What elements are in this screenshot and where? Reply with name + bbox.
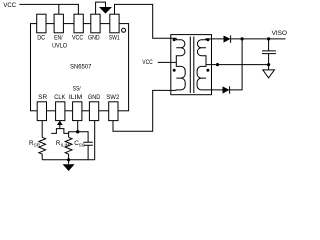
svg-text:VCC: VCC bbox=[3, 2, 16, 9]
transformer primary windings bbox=[176, 38, 185, 90]
wire VCC rail bbox=[19, 4, 78, 14]
ground iso (open triangle) bbox=[263, 65, 275, 78]
wire D2 cathode riser bbox=[230, 39, 243, 90]
pin labels bottom bbox=[38, 85, 120, 101]
pin SW1 bbox=[110, 14, 119, 33]
transformer secondary windings bbox=[197, 38, 206, 90]
capacitor CSS bbox=[83, 142, 92, 160]
svg-text:ILIM: ILIM bbox=[61, 143, 70, 148]
svg-text:VISO: VISO bbox=[272, 30, 287, 37]
pin SS/ILIM bbox=[73, 102, 82, 121]
IC name SN6507 bbox=[70, 63, 92, 70]
pin VCC bbox=[74, 14, 83, 33]
wire GND pin down bbox=[94, 121, 96, 160]
wire GND pin to ground bbox=[96, 2, 106, 14]
svg-text:SS: SS bbox=[79, 143, 85, 148]
wire SW2 to transformer primary bottom bbox=[113, 90, 176, 131]
pin EN/UVLO bbox=[54, 14, 63, 33]
clock source symbol bbox=[59, 121, 61, 125]
node VISO label bbox=[272, 30, 287, 37]
svg-text:SW2: SW2 bbox=[106, 94, 119, 101]
wire SW1 to transformer primary top bbox=[115, 4, 177, 38]
node VCC label centre tap bbox=[142, 59, 153, 66]
transformer T1 box bbox=[171, 35, 212, 95]
svg-text:EN/: EN/ bbox=[54, 35, 63, 42]
diode D1 top bbox=[224, 36, 231, 43]
svg-text:DC: DC bbox=[37, 35, 45, 42]
transformer core bbox=[190, 37, 194, 94]
pin labels top bbox=[37, 35, 120, 50]
transformer phase dots bbox=[173, 38, 210, 71]
svg-text:SN6507: SN6507 bbox=[70, 63, 92, 70]
svg-text:CLK: CLK bbox=[54, 94, 66, 101]
pin SR bbox=[37, 102, 46, 121]
svg-text:ILIM: ILIM bbox=[69, 94, 82, 101]
pin SW2 bbox=[109, 102, 118, 121]
node junction dot ground bbox=[67, 158, 70, 161]
wire VCC to primary centre tap bbox=[158, 61, 177, 63]
pin CLK bbox=[56, 102, 65, 121]
node junction dot centre tap bbox=[216, 63, 219, 66]
node junction dot cap bottom bbox=[267, 63, 270, 66]
wire to RILIM bbox=[69, 132, 78, 138]
node junction dot cap branch bbox=[267, 37, 270, 40]
wire VISO rail bbox=[231, 38, 286, 40]
wire SR to resistor bbox=[41, 121, 43, 138]
wire bottom rail bbox=[42, 159, 94, 161]
wire secondary centre tap bbox=[206, 64, 269, 66]
pin DC bbox=[37, 14, 46, 33]
wire secondary top to diode bbox=[206, 38, 223, 40]
svg-text:SW1: SW1 bbox=[109, 35, 120, 42]
svg-text:VCC: VCC bbox=[142, 59, 153, 66]
node corner circle bbox=[122, 28, 126, 32]
wire EN/UVLO drop bbox=[58, 4, 60, 14]
svg-text:UVLO: UVLO bbox=[52, 43, 67, 50]
capacitor C-out bbox=[262, 39, 276, 65]
node junction dot SS/ILIM bbox=[76, 130, 79, 133]
op-amp U1 IC body SN6507 bbox=[31, 24, 129, 111]
ground primary bottom (filled arrow) bbox=[68, 160, 70, 164]
node VCC label top-left bbox=[3, 2, 16, 9]
resistor RILIM bbox=[65, 137, 72, 160]
svg-text:GND: GND bbox=[88, 35, 100, 42]
svg-text:VCC: VCC bbox=[72, 35, 84, 42]
svg-text:GND: GND bbox=[88, 94, 101, 101]
resistor RSR bbox=[39, 137, 46, 160]
svg-text:SS/: SS/ bbox=[73, 85, 81, 92]
ground primary (filled arrow) bbox=[99, 7, 112, 14]
node junction dot D2 branch bbox=[241, 37, 244, 40]
pin GND bottom bbox=[89, 102, 98, 121]
pin GND top bbox=[91, 14, 100, 33]
svg-text:SR: SR bbox=[34, 143, 41, 148]
wire secondary bottom to diode bbox=[206, 89, 223, 91]
wire SS/ILIM down bbox=[77, 121, 79, 132]
diode D2 bottom bbox=[223, 86, 230, 93]
wire to CSS bbox=[78, 132, 88, 143]
svg-text:SR: SR bbox=[38, 94, 47, 101]
